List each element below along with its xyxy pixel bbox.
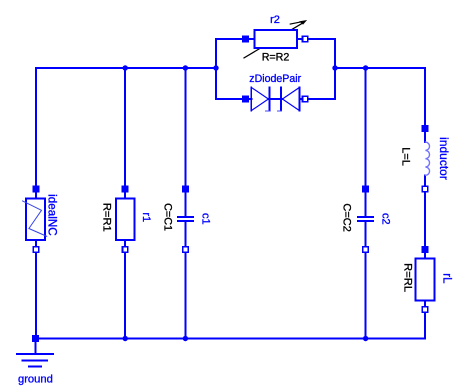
wire top-right horizontal [335, 67, 425, 69]
junction dot parallel right [332, 65, 337, 70]
pin rL top (filled) [422, 246, 429, 253]
svg-text:c2: c2 [380, 213, 392, 225]
svg-text:L=L: L=L [400, 147, 412, 166]
svg-text:idealNC: idealNC [46, 194, 59, 236]
svg-text:inductor: inductor [437, 137, 451, 180]
wire right column lower [424, 301, 426, 339]
pin inductor bottom (open) [422, 185, 429, 192]
junction dot bottom c2 [363, 336, 368, 341]
wire parallel-branch right vertical [334, 39, 336, 99]
wire bottom horizontal [36, 338, 425, 340]
wire r1 column lower [124, 240, 126, 338]
svg-text:rL: rL [440, 273, 452, 284]
wire zDiodePair middle link [269, 98, 283, 100]
svg-text:zDiodePair: zDiodePair [249, 73, 301, 85]
wire parallel-branch left vertical [215, 39, 217, 99]
junction dot bottom c1 [183, 336, 188, 341]
wire c2 column upper [365, 68, 367, 216]
pin ground (filled) [32, 335, 39, 342]
resistor r1 [116, 198, 135, 240]
svg-text:R=R1: R=R1 [101, 203, 113, 232]
svg-text:C=C2: C=C2 [341, 203, 353, 231]
pin inductor top (filled) [422, 125, 429, 132]
wire c1 column lower [184, 221, 186, 338]
svg-text:C=C1: C=C1 [161, 203, 173, 231]
svg-text:r1: r1 [140, 212, 152, 222]
ground [17, 342, 53, 367]
junction dot top c1 [183, 65, 188, 70]
wire c2 column lower [365, 221, 367, 338]
resistor r2 [244, 21, 306, 58]
capacitor c2 [357, 216, 374, 222]
junction dot parallel left [213, 65, 218, 70]
wire zDiodePair right lead [300, 98, 336, 100]
zener diode pair zDiodePair [251, 87, 299, 111]
nonlinear resistor idealNC [23, 198, 47, 240]
pin c2 top (filled) [362, 186, 369, 193]
pin r2 left (filled) [242, 36, 249, 43]
svg-text:r2: r2 [270, 14, 280, 26]
wire r2 right lead [297, 38, 335, 40]
pin r1 top (filled) [122, 186, 129, 193]
pin c2 bottom (open) [362, 246, 369, 253]
wire r2 left lead [216, 38, 254, 40]
wire right column middle [424, 175, 426, 258]
svg-text:R=RL: R=RL [401, 263, 413, 292]
capacitor c1 [177, 216, 194, 222]
wire right column upper [424, 68, 426, 142]
wire zDiodePair left lead [216, 98, 251, 100]
junction dot top r1 [123, 65, 128, 70]
pin r2 right (open) [302, 36, 309, 43]
pin idealNC bottom (open) [33, 246, 40, 253]
pin rL bottom (open) [422, 306, 429, 313]
wire left column lower [35, 240, 37, 338]
pin r1 bottom (open) [122, 246, 129, 253]
wire r1 column upper [124, 68, 126, 198]
svg-text:ground: ground [18, 373, 53, 385]
resistor rL [416, 258, 435, 300]
wire c1 column upper [184, 68, 186, 216]
junction dot bottom r1 [123, 336, 128, 341]
svg-text:R=R2: R=R2 [262, 51, 290, 63]
pin zDiodePair right (open) [302, 96, 309, 103]
wire left column upper [35, 68, 37, 198]
pin c1 bottom (open) [182, 246, 189, 253]
pin c1 top (filled) [182, 186, 189, 193]
pin idealNC top (filled) [33, 186, 40, 193]
wire top-left horizontal [36, 67, 216, 69]
svg-text:c1: c1 [199, 213, 211, 225]
inductor coil [425, 142, 429, 175]
junction dot top c2 [363, 65, 368, 70]
pin zDiodePair left (filled) [242, 96, 249, 103]
